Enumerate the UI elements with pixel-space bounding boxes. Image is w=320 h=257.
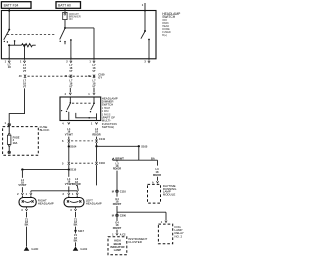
svg-text:VT: VT <box>69 85 73 89</box>
svg-text:LAMP: LAMP <box>114 248 122 252</box>
svg-text:S104: S104 <box>70 145 77 149</box>
svg-text:ON: ON <box>69 18 73 21</box>
svg-text:C141: C141 <box>99 137 106 141</box>
svg-text:VT: VT <box>69 69 73 73</box>
svg-text:VT: VT <box>92 85 96 89</box>
svg-text:BK: BK <box>25 223 29 227</box>
svg-text:MODULE: MODULE <box>163 192 175 196</box>
svg-text:VT: VT <box>23 69 27 73</box>
svg-text:C110: C110 <box>99 161 106 165</box>
svg-text:HEADLAMP: HEADLAMP <box>86 202 102 206</box>
svg-text:VT/WT: VT/WT <box>65 133 73 137</box>
svg-text:VT: VT <box>23 85 27 89</box>
svg-text:B(+): B(+) <box>162 34 167 37</box>
svg-text:A C2: A C2 <box>120 232 126 236</box>
svg-text:A: A <box>152 180 154 184</box>
svg-text:HEADLAMP: HEADLAMP <box>38 202 54 206</box>
svg-text:BK: BK <box>74 223 78 227</box>
svg-text:BA: BA <box>151 156 155 160</box>
svg-text:C200: C200 <box>120 213 127 217</box>
svg-text:CLUSTER: CLUSTER <box>128 240 142 244</box>
svg-text:S117: S117 <box>78 229 84 233</box>
svg-text:M: M <box>112 213 114 217</box>
svg-text:RD/OR: RD/OR <box>153 173 161 177</box>
svg-text:VT: VT <box>92 69 96 73</box>
svg-text:G102: G102 <box>80 247 87 251</box>
svg-text:BR/WT: BR/WT <box>115 157 124 161</box>
svg-text:S110: S110 <box>70 168 76 172</box>
svg-text:S105: S105 <box>141 144 148 148</box>
svg-text:BK: BK <box>74 238 78 242</box>
svg-text:RD/OR: RD/OR <box>92 133 100 137</box>
svg-text:SWITCH): SWITCH) <box>102 125 114 129</box>
svg-text:GY: GY <box>98 76 102 80</box>
svg-text:RD/OR: RD/OR <box>72 182 80 186</box>
svg-text:VT/WT: VT/WT <box>18 183 26 187</box>
svg-text:10A: 10A <box>13 141 18 145</box>
svg-text:RD/WT: RD/WT <box>113 202 122 206</box>
svg-text:G100: G100 <box>31 247 38 251</box>
svg-text:BATT A0: BATT A0 <box>58 4 71 8</box>
svg-text:M: M <box>112 189 114 193</box>
svg-text:C110: C110 <box>120 189 127 193</box>
svg-text:RD/OR: RD/OR <box>113 167 121 171</box>
svg-text:NO. 2: NO. 2 <box>175 234 183 238</box>
svg-text:BATT F34: BATT F34 <box>4 4 19 8</box>
svg-text:BLOCK: BLOCK <box>40 128 50 132</box>
svg-text:RD/WT: RD/WT <box>113 226 122 230</box>
